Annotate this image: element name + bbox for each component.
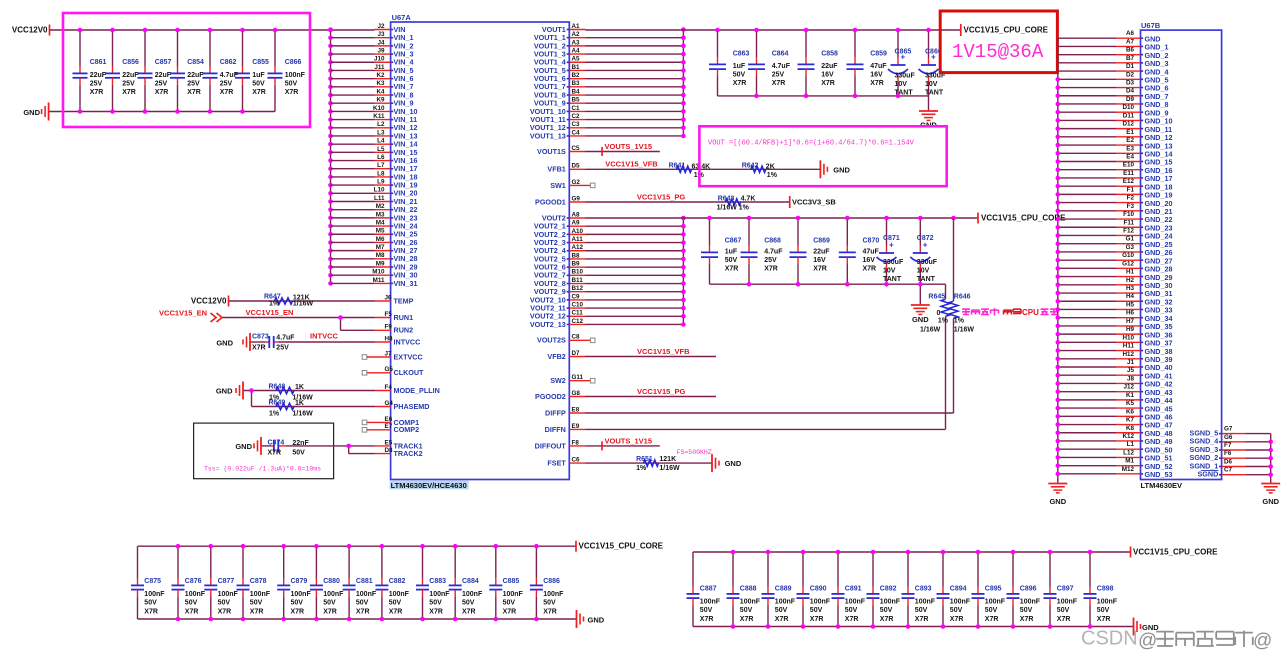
svg-text:C863: C863 (733, 51, 750, 58)
wire VOUT2 cap bottom rail (710, 283, 946, 285)
svg-text:X7R: X7R (1097, 616, 1111, 623)
svg-text:U67A: U67A (392, 13, 412, 22)
node VOUTS_1V15 net label at DIFFOUT (602, 436, 652, 450)
text Tss formula (204, 466, 321, 473)
svg-text:X7R: X7R (155, 89, 169, 96)
svg-text:16V: 16V (813, 257, 826, 264)
capacitor C879 100nF 50V X7R (277, 546, 311, 619)
svg-text:L9: L9 (377, 179, 385, 186)
U67A VOUT1 pin numbers A1-C4 (572, 23, 581, 136)
capacitor C887 100nF 50V X7R (687, 552, 721, 627)
svg-text:50V: 50V (462, 600, 475, 607)
svg-text:100nF: 100nF (503, 591, 524, 598)
wire U67A VOUT1 pin wires (567, 30, 684, 136)
svg-text:C880: C880 (323, 578, 340, 585)
svg-text:50V: 50V (218, 600, 231, 607)
svg-text:X7R: X7R (220, 89, 234, 96)
capacitor C870 47uF 16V X7R (839, 218, 880, 284)
svg-text:C890: C890 (810, 585, 827, 592)
U67A pin F9 RUN2 (385, 324, 414, 335)
svg-text:DIFFP: DIFFP (545, 408, 566, 417)
svg-text:G11: G11 (572, 374, 584, 381)
ground GND feedback divider (820, 160, 850, 178)
wire TRACK1 to TRACK2 branch (349, 446, 391, 454)
svg-text:10V: 10V (917, 268, 930, 275)
U67B GND pin names (1145, 34, 1173, 479)
svg-text:1/16W 1%: 1/16W 1% (717, 204, 750, 211)
svg-text:M1: M1 (1125, 458, 1134, 465)
wire VCC12V0 rail to U67A VIN pins (50, 29, 375, 31)
svg-text:J2: J2 (377, 23, 385, 30)
svg-text:A7: A7 (1126, 38, 1135, 45)
U67B SGND pin names (1190, 428, 1219, 478)
svg-text:B5: B5 (572, 97, 581, 104)
wire bottom bank bottom rail (693, 626, 1134, 628)
svg-text:C884: C884 (462, 578, 479, 585)
svg-text:C859: C859 (870, 51, 887, 58)
svg-text:X7R: X7R (503, 608, 517, 615)
svg-text:X7R: X7R (144, 608, 158, 615)
svg-text:DIFFN: DIFFN (545, 425, 566, 434)
svg-text:50V: 50V (252, 81, 265, 88)
svg-text:CPU: CPU (1022, 308, 1039, 317)
junction dots bottom bank rails (731, 550, 1093, 629)
wire U67A VOUT2 pin wires (567, 218, 684, 324)
U67A pin J6 TEMP (229, 294, 414, 305)
ground GND input cap bank (23, 103, 48, 121)
svg-text:X7R: X7R (845, 616, 859, 623)
svg-text:B7: B7 (1126, 55, 1135, 62)
svg-text:B2: B2 (572, 72, 581, 79)
capacitor C866 100nF 50V X7R (268, 30, 306, 112)
svg-text:50V: 50V (733, 72, 746, 79)
svg-text:E2: E2 (1126, 137, 1134, 144)
junction dots VIN rails (78, 28, 333, 114)
svg-text:47uF: 47uF (863, 249, 880, 256)
svg-text:X7R: X7R (462, 608, 476, 615)
svg-text:A3: A3 (572, 39, 581, 46)
U67A pin C8 VOUT2S no-connect (537, 334, 595, 345)
svg-text:C2: C2 (572, 113, 581, 120)
svg-text:1K: 1K (295, 384, 304, 391)
svg-text:1/16W: 1/16W (920, 326, 941, 333)
svg-text:H7: H7 (1126, 318, 1135, 325)
svg-text:VCC1V15_PG: VCC1V15_PG (637, 193, 686, 202)
svg-text:TRACK2: TRACK2 (394, 449, 423, 458)
U67A pin E6 COMP1 no-connect (362, 416, 419, 427)
svg-text:VCC1V15_VFB: VCC1V15_VFB (605, 160, 658, 169)
svg-text:VCC1V15_EN: VCC1V15_EN (159, 308, 207, 317)
wire VOUT2 bus vertical (682, 218, 684, 324)
svg-text:E5: E5 (385, 439, 393, 446)
svg-text:D12: D12 (1122, 121, 1134, 128)
svg-text:C874: C874 (268, 439, 285, 446)
svg-text:X7R: X7R (1057, 616, 1071, 623)
svg-text:16V: 16V (821, 72, 834, 79)
U67B GND pin numbers (1122, 30, 1135, 473)
svg-text:X7R: X7R (323, 608, 337, 615)
svg-text:47uF: 47uF (870, 63, 887, 70)
svg-text:RUN1: RUN1 (394, 313, 414, 322)
svg-text:VOUT2_13: VOUT2_13 (530, 320, 566, 329)
U67B part number LTM4630EV (1141, 481, 1183, 490)
node VCC3V3_SB net label (790, 196, 837, 208)
node VCC1V15_PG net label at PGOOD1 (637, 193, 686, 202)
svg-text:VCC1V15_CPU_CORE: VCC1V15_CPU_CORE (579, 542, 664, 551)
resistor R646 0 1% 1/16W remote sense + (949, 218, 974, 413)
svg-text:100nF: 100nF (144, 591, 165, 598)
svg-text:GND: GND (1049, 497, 1066, 506)
capacitor C872 330uF 10V TANT polarized (910, 218, 937, 284)
svg-text:MODE_PLLIN: MODE_PLLIN (394, 386, 440, 395)
svg-text:50V: 50V (1097, 607, 1110, 614)
svg-text:L3: L3 (377, 129, 385, 136)
svg-text:50V: 50V (880, 607, 893, 614)
svg-text:L1: L1 (1127, 441, 1135, 448)
svg-text:0: 0 (937, 310, 941, 317)
svg-text:VOUT =[(60.4/RFB)+1]*0.6=(1+60: VOUT =[(60.4/RFB)+1]*0.6=(1+60.4/64.7)*0… (708, 140, 915, 148)
svg-text:M7: M7 (376, 244, 385, 251)
svg-text:PHASEMD: PHASEMD (394, 402, 430, 411)
U67A pin G8 PGOOD2 (535, 390, 716, 401)
capacitor C859 47uF 16V X7R (847, 30, 888, 96)
wire VOUT1 bus vertical (682, 30, 684, 136)
svg-text:D4: D4 (1126, 88, 1135, 95)
svg-text:G7: G7 (1224, 426, 1233, 433)
svg-text:H8: H8 (385, 335, 394, 342)
svg-text:L12: L12 (1123, 449, 1134, 456)
svg-text:J5: J5 (1127, 367, 1135, 374)
ground GND bottom bank (577, 610, 605, 628)
svg-text:100nF: 100nF (950, 598, 971, 605)
junction dots VOUT2 bus (681, 216, 686, 327)
svg-text:INTVCC: INTVCC (394, 337, 421, 346)
svg-text:E4: E4 (1126, 154, 1134, 161)
svg-text:M4: M4 (376, 219, 385, 226)
svg-text:X7R: X7R (90, 89, 104, 96)
svg-text:1/16W: 1/16W (293, 410, 314, 417)
svg-text:50V: 50V (389, 600, 402, 607)
capacitor C883 100nF 50V X7R (416, 546, 450, 619)
svg-text:F9: F9 (385, 324, 393, 331)
svg-text:R642: R642 (742, 163, 759, 170)
svg-text:VCC1V15_PG: VCC1V15_PG (637, 387, 686, 396)
svg-text:E9: E9 (572, 423, 580, 430)
svg-text:R645: R645 (928, 293, 945, 300)
capacitor C886 100nF 50V X7R (530, 546, 564, 619)
svg-text:E11: E11 (1123, 170, 1134, 177)
svg-text:50V: 50V (950, 607, 963, 614)
svg-text:@: @ (1138, 631, 1157, 652)
svg-text:M9: M9 (376, 260, 385, 267)
U67B SGND pin numbers (1224, 426, 1233, 474)
svg-text:E10: E10 (1123, 162, 1135, 169)
svg-text:X7R: X7R (821, 80, 835, 87)
svg-text:50V: 50V (1057, 607, 1070, 614)
svg-text:H1: H1 (1126, 269, 1135, 276)
svg-text:GND: GND (912, 315, 929, 324)
junction dots U67B SGND bus (1268, 440, 1273, 478)
svg-text:VCC12V0: VCC12V0 (191, 297, 227, 306)
svg-text:C896: C896 (1020, 585, 1037, 592)
svg-text:E7: E7 (385, 423, 393, 430)
svg-text:H6: H6 (1126, 310, 1135, 317)
svg-text:4.7uF: 4.7uF (772, 63, 791, 70)
svg-text:M11: M11 (373, 277, 385, 284)
U67A pin D5 VFB1 (547, 163, 820, 174)
node VCC1V15_CPU_CORE net label bank (1131, 547, 1219, 558)
svg-text:10V: 10V (925, 81, 938, 88)
svg-text:F12: F12 (1123, 227, 1134, 234)
svg-text:10V: 10V (895, 81, 908, 88)
svg-text:25V: 25V (276, 345, 289, 352)
svg-text:F3: F3 (1127, 203, 1135, 210)
svg-text:M10: M10 (372, 269, 385, 276)
junction dots VOUT1 rails (715, 28, 931, 99)
svg-text:J10: J10 (374, 56, 385, 63)
svg-text:X7R: X7R (775, 616, 789, 623)
capacitor C855 1uF 50V X7R (235, 30, 269, 112)
svg-text:C879: C879 (291, 578, 308, 585)
svg-text:1uF: 1uF (725, 249, 738, 256)
junction dots VIN bus (328, 27, 333, 285)
svg-text:PGOOD1: PGOOD1 (535, 197, 566, 206)
svg-text:330uF: 330uF (895, 73, 916, 80)
svg-text:R646: R646 (954, 293, 971, 300)
svg-text:F10: F10 (1123, 211, 1134, 218)
svg-text:100nF: 100nF (700, 598, 721, 605)
svg-text:C862: C862 (220, 59, 237, 66)
svg-text:50V: 50V (291, 600, 304, 607)
node VCC1V15_VFB net label at VFB2 (637, 347, 690, 356)
svg-text:100nF: 100nF (880, 598, 901, 605)
svg-text:GND: GND (23, 108, 40, 117)
svg-text:C888: C888 (740, 585, 757, 592)
svg-text:GND: GND (833, 165, 850, 174)
svg-text:B12: B12 (572, 285, 584, 292)
svg-text:B10: B10 (572, 269, 584, 276)
capacitor C892 100nF 50V X7R (867, 552, 901, 627)
capacitor C876 100nF 50V X7R (172, 546, 206, 619)
svg-text:50V: 50V (429, 600, 442, 607)
svg-text:C864: C864 (772, 51, 789, 58)
svg-text:22nF: 22nF (292, 440, 309, 447)
svg-text:22uF: 22uF (187, 72, 204, 79)
node INTVCC net label (310, 332, 339, 341)
svg-text:X7R: X7R (725, 266, 739, 273)
svg-text:X7R: X7R (187, 89, 201, 96)
svg-text:X7R: X7R (950, 616, 964, 623)
U67A pin F8 DIFFOUT (535, 439, 660, 450)
svg-text:H2: H2 (1126, 277, 1135, 284)
svg-text:C876: C876 (185, 578, 202, 585)
svg-text:X7R: X7R (429, 608, 443, 615)
svg-text:A8: A8 (572, 211, 581, 218)
svg-text:VIN_31: VIN_31 (394, 279, 418, 288)
svg-text:1uF: 1uF (252, 72, 265, 79)
svg-text:16V: 16V (863, 257, 876, 264)
black box soft-start network (194, 423, 334, 479)
svg-text:VCC3V3_SB: VCC3V3_SB (792, 198, 836, 207)
ground GND under C860 (919, 111, 938, 130)
svg-text:VOUTS_1V15: VOUTS_1V15 (605, 436, 653, 445)
svg-text:X7R: X7R (880, 616, 894, 623)
node VCC12V0 power label (12, 25, 50, 36)
svg-text:R649: R649 (269, 399, 286, 406)
capacitor C856 22uF 25V X7R (105, 30, 139, 112)
svg-text:C856: C856 (122, 59, 139, 66)
U67A pin E9 DIFFN (545, 423, 946, 434)
svg-text:L2: L2 (377, 121, 385, 128)
svg-text:25V: 25V (122, 81, 135, 88)
text 1V15@36A output rating (952, 41, 1044, 63)
svg-text:L8: L8 (377, 170, 385, 177)
svg-text:J3: J3 (377, 31, 385, 38)
svg-text:B9: B9 (572, 261, 581, 268)
capacitor C891 100nF 50V X7R (832, 552, 866, 627)
U67A VOUT2 pin names (530, 213, 566, 328)
svg-text:100nF: 100nF (462, 591, 483, 598)
svg-text:X7R: X7R (915, 616, 929, 623)
svg-text:G4: G4 (385, 400, 394, 407)
magenta box input capacitors (63, 13, 310, 127)
svg-text:GND: GND (235, 442, 252, 451)
node VCC1V15_CPU_CORE net label bank (576, 541, 664, 552)
svg-text:X7R: X7R (863, 266, 877, 273)
svg-text:X7R: X7R (813, 266, 827, 273)
svg-text:C892: C892 (880, 585, 897, 592)
wire bottom bank top rail VCC1V15_CPU_CORE (138, 545, 577, 547)
svg-text:100nF: 100nF (1057, 598, 1078, 605)
svg-text:50V: 50V (1020, 607, 1033, 614)
svg-text:4.7uF: 4.7uF (276, 335, 295, 342)
capacitor C878 100nF 50V X7R (237, 546, 271, 619)
svg-text:K10: K10 (373, 105, 385, 112)
svg-text:C871: C871 (883, 235, 900, 242)
svg-text:M5: M5 (376, 228, 385, 235)
svg-text:X7R: X7R (870, 80, 884, 87)
op-amp U67A LTM4630EV regulator symbol box (391, 13, 570, 480)
svg-text:VFB2: VFB2 (547, 352, 565, 361)
capacitor C875 100nF 50V X7R (131, 546, 165, 619)
svg-text:100nF: 100nF (185, 591, 206, 598)
ground GND under VOUT2 caps (911, 305, 930, 324)
svg-text:1/16W: 1/16W (293, 301, 314, 308)
text CSDN watermark (1081, 628, 1272, 652)
svg-text:A9: A9 (572, 220, 581, 227)
wire VOUT1 cap bottom rail (718, 96, 929, 111)
wire U67B SGND pin wires (1219, 434, 1271, 475)
wire U67B GND pin wires (1058, 38, 1143, 474)
node VCC12V0 power label at TEMP (191, 296, 229, 307)
svg-text:VCC1V15_EN: VCC1V15_EN (246, 308, 294, 317)
U67A pin F5 RUN1 (222, 311, 413, 322)
svg-text:B3: B3 (572, 80, 581, 87)
svg-text:TANT: TANT (883, 276, 902, 283)
svg-text:R641: R641 (669, 163, 686, 170)
ground GND under U67B right bus (1261, 484, 1280, 507)
svg-text:C857: C857 (155, 59, 172, 66)
svg-text:50V: 50V (845, 607, 858, 614)
svg-text:C894: C894 (950, 585, 967, 592)
svg-text:B1: B1 (572, 64, 581, 71)
svg-text:GND: GND (588, 615, 605, 624)
svg-text:25V: 25V (764, 257, 777, 264)
svg-text:VOUT1S: VOUT1S (537, 147, 566, 156)
svg-text:1/16W: 1/16W (659, 465, 680, 472)
svg-text:C875: C875 (144, 578, 161, 585)
svg-text:L10: L10 (374, 187, 385, 194)
resistor R649 1K 1% 1/16W (269, 399, 314, 417)
svg-text:X7R: X7R (252, 345, 266, 352)
svg-text:K9: K9 (376, 97, 385, 104)
svg-text:H5: H5 (1126, 301, 1135, 308)
svg-text:C887: C887 (700, 585, 717, 592)
capacitor C889 100nF 50V X7R (762, 552, 796, 627)
svg-text:H10: H10 (1122, 334, 1134, 341)
capacitor C895 100nF 50V X7R (972, 552, 1006, 627)
svg-text:C11: C11 (572, 310, 584, 317)
U67A pin G5 CLKOUT no-connect (362, 366, 424, 377)
svg-text:D6: D6 (1224, 459, 1233, 466)
svg-text:C12: C12 (572, 318, 584, 325)
svg-text:D8: D8 (385, 447, 394, 454)
svg-text:X7R: X7R (985, 616, 999, 623)
svg-text:E8: E8 (572, 406, 580, 413)
U67A pin F4 MODE_PLLIN (243, 384, 440, 395)
svg-text:25V: 25V (90, 81, 103, 88)
U67A pin G2 SW1 no-connect (550, 179, 595, 190)
capacitor C864 4.7uF 25V X7R (748, 30, 791, 96)
svg-text:10V: 10V (883, 268, 896, 275)
svg-text:X7R: X7R (772, 80, 786, 87)
svg-text:1%: 1% (269, 301, 280, 308)
svg-text:J9: J9 (377, 47, 385, 54)
svg-text:L6: L6 (377, 154, 385, 161)
svg-text:M6: M6 (376, 236, 385, 243)
capacitor C885 100nF 50V X7R (489, 546, 523, 619)
U67A pin D8 TRACK2 (385, 447, 423, 458)
svg-text:1uF: 1uF (733, 63, 746, 70)
svg-text:1K: 1K (295, 400, 304, 407)
svg-text:GND: GND (216, 387, 233, 396)
svg-text:VCC1V15_CPU_CORE: VCC1V15_CPU_CORE (964, 26, 1049, 35)
svg-text:H9: H9 (1126, 326, 1135, 333)
svg-text:K8: K8 (1126, 425, 1135, 432)
svg-text:E3: E3 (1126, 145, 1134, 152)
capacitor C861 22uF 25V X7R (73, 30, 107, 112)
svg-text:A1: A1 (572, 23, 581, 30)
U67A pin E5 TRACK1 (261, 439, 423, 450)
svg-text:VCC1V15_VFB: VCC1V15_VFB (637, 347, 690, 356)
wire bottom bank bottom rail (138, 618, 577, 620)
U67A part number LTM4630EV/HCE4630 (390, 481, 469, 490)
svg-text:C891: C891 (845, 585, 862, 592)
svg-text:X7R: X7R (252, 89, 266, 96)
svg-text:C855: C855 (252, 59, 269, 66)
svg-text:E6: E6 (385, 416, 393, 423)
svg-text:J4: J4 (377, 39, 385, 46)
svg-text:D3: D3 (1126, 80, 1135, 87)
ground GND at C874 (235, 437, 261, 455)
svg-text:PGOOD2: PGOOD2 (535, 392, 566, 401)
U67A VIN pin names (394, 25, 418, 288)
svg-text:16V: 16V (870, 72, 883, 79)
ground GND at FSET (712, 454, 742, 472)
wire VOUT2 rail to VCC1V15_CPU_CORE (586, 217, 979, 219)
svg-text:D1: D1 (1126, 63, 1135, 70)
junction TRACK branch (346, 444, 351, 449)
